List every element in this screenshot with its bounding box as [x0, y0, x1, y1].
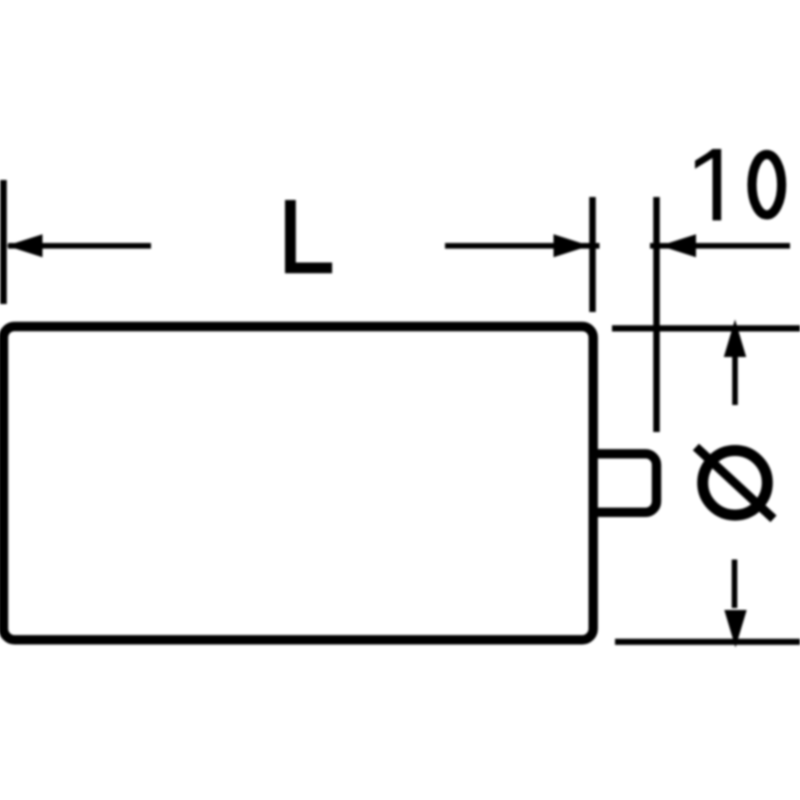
extension line left (L dimension) — [0, 180, 7, 304]
terminal tab on right side — [593, 454, 657, 513]
extension line at terminal end (10 dimension) — [653, 197, 660, 432]
10 dimension arrowhead — [660, 234, 696, 257]
diameter down arrowhead — [724, 610, 746, 648]
diameter symbol circle — [703, 451, 768, 516]
10 dimension arrow shaft — [650, 243, 790, 249]
L dimension left arrowhead — [7, 234, 43, 257]
extension line bottom (diameter dimension) — [615, 639, 800, 645]
diameter down arrow shaft — [732, 560, 738, 609]
extension line at body right edge (L / 10 dimensions) — [589, 197, 596, 312]
label 10 digit 1 — [695, 149, 721, 220]
extension line top (diameter dimension) — [612, 325, 800, 331]
diameter symbol slash — [696, 447, 774, 519]
L dimension left arrow shaft — [8, 243, 151, 249]
diameter up arrowhead — [724, 320, 746, 358]
label L — [285, 200, 332, 273]
label 10 digit 0 — [752, 155, 782, 215]
diameter up arrow shaft — [732, 356, 738, 405]
L dimension right arrow shaft — [445, 243, 600, 249]
capacitor body outline — [4, 327, 594, 640]
L dimension right arrowhead — [554, 234, 590, 257]
